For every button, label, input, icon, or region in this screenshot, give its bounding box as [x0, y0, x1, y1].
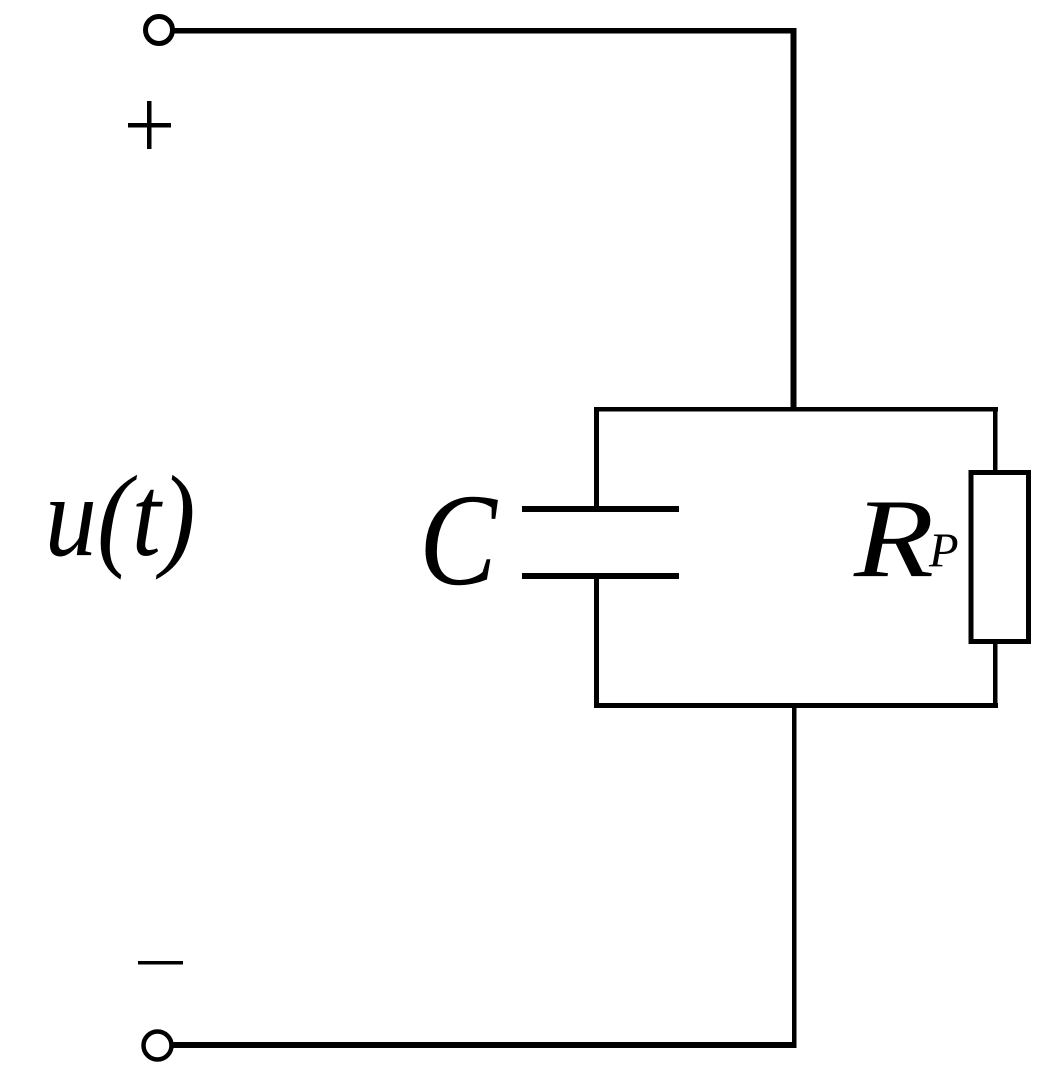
svg-text:R: R	[853, 477, 934, 601]
resistor RP body	[971, 473, 1029, 642]
terminal T1 (top, +)	[146, 17, 173, 44]
wire box right lower (from resistor)	[993, 641, 998, 708]
capacitor C top plate	[522, 506, 679, 512]
wire box bottom	[594, 703, 998, 708]
capacitor C bottom plate	[522, 573, 679, 579]
wire top vertical	[791, 28, 797, 411]
svg-text:C: C	[419, 466, 499, 612]
terminal T2 (bottom, −)	[144, 1032, 172, 1060]
minus polarity symbol	[138, 961, 183, 965]
wire box right upper (to resistor)	[993, 407, 998, 473]
plus polarity symbol	[128, 101, 171, 149]
wire box left upper (to capacitor)	[594, 407, 599, 508]
wire bottom vertical	[792, 705, 797, 1048]
wire box top	[594, 407, 998, 412]
wire bottom horizontal	[173, 1042, 797, 1048]
svg-text:u(t): u(t)	[45, 452, 196, 580]
wire box left lower (from capacitor)	[594, 576, 599, 708]
svg-text:P: P	[928, 525, 959, 578]
wire top horizontal	[175, 28, 797, 34]
